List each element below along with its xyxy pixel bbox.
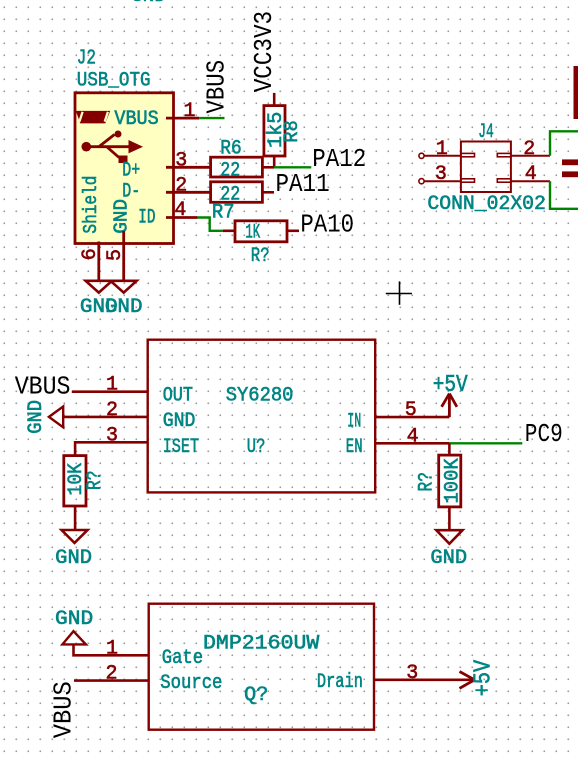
wire net pin2 xyxy=(550,131,578,156)
svg-text:4: 4 xyxy=(407,425,419,448)
svg-text:J4: J4 xyxy=(478,121,494,144)
Q? body xyxy=(149,604,374,730)
svg-text:SY6280: SY6280 xyxy=(226,384,294,407)
svg-text:PA11: PA11 xyxy=(276,170,330,199)
pin 3 D+ xyxy=(166,166,211,169)
wire to PC9 xyxy=(449,442,522,444)
svg-text:R7: R7 xyxy=(212,201,235,224)
svg-text:Drain: Drain xyxy=(317,671,363,694)
pin 3 xyxy=(425,180,461,182)
resistor 10K xyxy=(64,456,86,506)
ground GND pin 5 xyxy=(111,281,137,293)
svg-text:GND: GND xyxy=(430,547,467,570)
ground GND xyxy=(62,530,88,543)
svg-text:VBUS: VBUS xyxy=(114,108,158,131)
svg-text:PC9: PC9 xyxy=(525,420,563,449)
svg-text:CONN_02X02: CONN_02X02 xyxy=(427,193,546,216)
svg-text:PA10: PA10 xyxy=(300,210,354,239)
svg-text:GND: GND xyxy=(110,199,132,234)
cursor crosshair xyxy=(386,281,412,304)
partial symbol right edge top xyxy=(574,66,578,119)
svg-text:1: 1 xyxy=(184,100,196,123)
svg-text:GND: GND xyxy=(105,296,143,319)
pin 2 xyxy=(511,155,550,157)
ground GND pin 6 xyxy=(86,281,112,293)
wire to PA12 xyxy=(274,166,311,168)
svg-text:Shield: Shield xyxy=(80,176,102,234)
svg-text:5: 5 xyxy=(104,249,127,261)
resistor R5 value 22 xyxy=(211,182,263,203)
svg-text:Source: Source xyxy=(160,672,222,695)
svg-text:VBUS: VBUS xyxy=(50,681,79,738)
pin 4 xyxy=(511,180,550,182)
svg-text:4: 4 xyxy=(525,163,537,186)
svg-text:3: 3 xyxy=(106,424,118,447)
ground GND arrow xyxy=(49,407,63,428)
svg-text:22: 22 xyxy=(220,159,240,182)
usb trident icon xyxy=(82,131,144,164)
ground GND xyxy=(436,530,462,544)
pin 4 ID xyxy=(166,216,198,219)
usb receptacle icon xyxy=(76,111,110,124)
pin 1 VBUS xyxy=(166,117,199,120)
pin 1 xyxy=(425,155,461,157)
pin 3 ISET xyxy=(75,442,148,455)
svg-text:ID: ID xyxy=(138,207,155,230)
svg-text:VBUS: VBUS xyxy=(15,372,71,401)
pin 4 EN xyxy=(375,442,449,445)
svg-text:GND: GND xyxy=(55,547,92,570)
svg-text:Q?: Q? xyxy=(244,684,268,707)
svg-text:2: 2 xyxy=(106,663,118,686)
svg-text:2: 2 xyxy=(106,399,118,422)
svg-text:EN: EN xyxy=(346,436,363,459)
svg-text:100K: 100K xyxy=(442,458,465,503)
svg-text:GND: GND xyxy=(131,0,166,8)
svg-text:ISET: ISET xyxy=(163,436,199,459)
pin 2 source wire xyxy=(74,679,149,682)
svg-text:4: 4 xyxy=(174,199,186,222)
svg-text:R?: R? xyxy=(416,472,439,491)
svg-text:2: 2 xyxy=(175,174,187,197)
wire ID to R7 xyxy=(198,218,223,231)
IC U? SY6280 xyxy=(148,340,376,493)
svg-text:J2: J2 xyxy=(77,47,96,70)
svg-text:2: 2 xyxy=(523,138,535,161)
pin 5 IN xyxy=(375,416,449,419)
svg-text:Gate: Gate xyxy=(162,647,203,670)
svg-text:5: 5 xyxy=(405,399,417,422)
svg-text:OUT: OUT xyxy=(163,384,193,407)
svg-text:1K: 1K xyxy=(245,222,260,245)
svg-text:R?: R? xyxy=(251,245,270,268)
power +5V arrow xyxy=(460,672,475,689)
svg-text:D+: D+ xyxy=(122,160,140,183)
svg-text:USB_OTG: USB_OTG xyxy=(77,70,151,93)
svg-text:1: 1 xyxy=(106,374,118,397)
svg-text:IN: IN xyxy=(347,410,361,433)
partial symbol right edge bars xyxy=(562,159,578,165)
svg-text:DMP2160UW: DMP2160UW xyxy=(203,632,319,655)
svg-text:3: 3 xyxy=(406,662,418,685)
svg-text:1: 1 xyxy=(436,138,448,161)
wire net pin4 xyxy=(550,181,578,209)
svg-text:R8: R8 xyxy=(281,120,304,143)
svg-text:6: 6 xyxy=(79,248,102,260)
pin 3 drain xyxy=(374,678,474,681)
svg-text:GND: GND xyxy=(55,608,93,631)
wire xyxy=(199,117,224,119)
J2 pins 5,6 xyxy=(97,242,100,281)
svg-text:U?: U? xyxy=(247,436,266,459)
svg-text:GND: GND xyxy=(25,400,48,434)
svg-text:VCC3V3: VCC3V3 xyxy=(250,11,279,92)
pin 1 OUT xyxy=(72,390,148,393)
svg-text:R?: R? xyxy=(84,471,107,490)
svg-text:3: 3 xyxy=(175,149,187,172)
svg-text:3: 3 xyxy=(435,163,447,186)
svg-text:+5V: +5V xyxy=(471,659,498,696)
resistor 100K xyxy=(448,443,451,455)
resistor R8 xyxy=(264,93,285,167)
svg-text:1: 1 xyxy=(106,637,118,660)
ground GND arrow xyxy=(62,631,86,644)
pin 2 GND xyxy=(63,416,148,419)
svg-text:GND: GND xyxy=(163,410,196,433)
pin 2 D- xyxy=(166,191,211,194)
svg-text:VBUS: VBUS xyxy=(203,60,232,114)
